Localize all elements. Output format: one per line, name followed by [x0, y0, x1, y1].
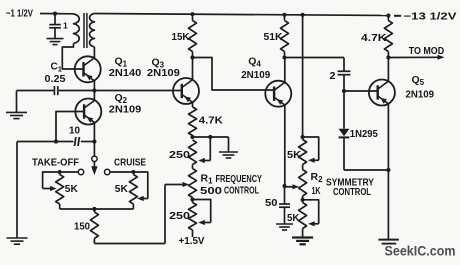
node R2 chain top [301, 135, 305, 139]
wire Q4 emitter down [284, 105, 286, 186]
wiper 5K lower R2 [303, 200, 319, 224]
wire TO MOD with arrow [388, 56, 438, 58]
svg-text:15K: 15K [172, 31, 190, 43]
ground stem left input [16, 91, 18, 113]
transistor Q5 [369, 80, 395, 106]
node TO MOD junction [386, 55, 390, 59]
net -13.5V tick [394, 15, 401, 17]
transformer T1 primary winding [74, 14, 80, 43]
svg-text:2N109: 2N109 [241, 69, 270, 81]
wire R1 wiper to bottom [94, 243, 165, 245]
wire left rail down [16, 142, 18, 238]
svg-text:CONTROL: CONTROL [333, 187, 371, 198]
node rail 4.7K right [386, 13, 390, 17]
svg-text:4.7K: 4.7K [199, 114, 223, 126]
wire Q2 base left and down [56, 112, 84, 142]
ground bottom right [378, 239, 398, 241]
resistor 15K [192, 14, 194, 20]
svg-text:2N109: 2N109 [109, 103, 142, 115]
wire Q1 emitter down [93, 81, 95, 91]
potentiometer R1 500 [192, 165, 194, 169]
potentiometer take-off 5K [59, 172, 61, 175]
svg-text:2N109: 2N109 [406, 88, 435, 100]
wire input left segment [17, 90, 54, 92]
node Q5 emitter junction [386, 168, 390, 172]
svg-text:5K: 5K [115, 183, 128, 195]
svg-text:1N295: 1N295 [350, 128, 378, 140]
node R2 wiper junction [282, 184, 286, 188]
svg-text:+1.5V: +1.5V [179, 235, 205, 247]
svg-text:51K: 51K [264, 31, 283, 43]
svg-text:TAKE-OFF: TAKE-OFF [32, 157, 79, 168]
node R2 bottom junction [301, 198, 305, 202]
node cruise pot top [131, 170, 135, 174]
wire Q5 emitter [387, 104, 389, 170]
svg-text:500: 500 [200, 186, 223, 197]
svg-text:250: 250 [169, 149, 190, 161]
potentiometer 250 lower [192, 200, 194, 203]
wire feedback right segment [81, 141, 95, 143]
wiper take-off 5K [43, 172, 60, 189]
wire Q3 collector [192, 58, 194, 80]
transistor Q3 [173, 78, 199, 104]
capacitor 1 (bypass) with value label [54, 14, 56, 25]
wire Q1 collector to secondary bottom [93, 47, 95, 58]
ground bottom left [7, 237, 28, 239]
node Q4 collector junction [282, 55, 286, 59]
resistor 51K [284, 15, 286, 21]
ground under 50 cap [276, 223, 293, 225]
diode 1N295 [343, 91, 345, 129]
transistor Q2 [75, 99, 101, 125]
wire junction to Q3 base [94, 90, 181, 92]
svg-text:0.25: 0.25 [45, 73, 66, 85]
switch take-off terminal [78, 169, 83, 174]
svg-text:5K: 5K [287, 212, 300, 224]
wire take-off terminal to pot [60, 171, 79, 173]
wire cap2 to Q5 base [344, 90, 378, 92]
wire diode to Q5 emitter [344, 169, 388, 171]
node Q5 base junction [342, 89, 346, 93]
wire C1 to emitter junction [59, 90, 95, 92]
ground left input [6, 111, 27, 113]
transformer T1 core [83, 13, 85, 48]
capacitor 50 [284, 186, 286, 204]
svg-text:2N140: 2N140 [109, 67, 142, 79]
node rail R2 chain [301, 13, 305, 17]
wire pots common bottom [60, 208, 134, 210]
node take-off pot top [58, 170, 62, 174]
svg-text:FREQUENCY: FREQUENCY [216, 174, 263, 185]
wire 51K bottom to cap 2 [285, 57, 345, 59]
potentiometer R2 1K [302, 165, 304, 170]
svg-text:5K: 5K [287, 149, 301, 161]
potentiometer 250 upper [189, 140, 197, 165]
potentiometer cruise 5K [132, 172, 134, 175]
capacitor 2 [343, 58, 345, 72]
svg-text:4.7K: 4.7K [361, 32, 387, 44]
svg-text:2: 2 [330, 70, 336, 82]
wire primary bottom to Q1 base [62, 43, 83, 69]
node 250a wiper tap [208, 135, 212, 139]
ground under R2 chain [292, 236, 313, 238]
svg-text:−1 1/2V: −1 1/2V [6, 9, 33, 20]
wire supply to transformer primary top [40, 13, 74, 15]
wire Q5 emitter to ground [387, 170, 389, 239]
svg-text:CRUISE: CRUISE [114, 157, 146, 168]
wire cap10 junction to switch [93, 142, 95, 157]
potentiometer 5K lower R2 [302, 200, 304, 203]
transistor Q1 [75, 56, 101, 82]
svg-text:50: 50 [265, 197, 278, 209]
wire to bias ground [193, 136, 229, 138]
wiper cruise 5K [133, 172, 147, 199]
wiper 5K upper R2 [303, 137, 319, 160]
node Q2 emitter tap [92, 139, 96, 143]
wiper R1 500 arrow [164, 185, 166, 244]
svg-text:TO MOD: TO MOD [409, 46, 445, 57]
transistor Q4 [265, 81, 291, 107]
ground under capacitor 1 [47, 38, 64, 40]
node 150 top [92, 207, 96, 211]
wire Q3 collector to Q4 base [193, 58, 275, 91]
resistor 4.7K Q3 emitter [192, 102, 194, 107]
node supply junction [53, 12, 57, 16]
node Q2 base tap [54, 139, 58, 143]
svg-text:1K: 1K [312, 185, 321, 197]
switch wiper arrow [93, 162, 95, 167]
transformer T1 secondary winding [90, 14, 95, 47]
wire Q2 emitter down [93, 123, 95, 142]
node R1 bottom junction [190, 197, 194, 201]
svg-text:250: 250 [169, 210, 190, 222]
svg-text:10: 10 [69, 124, 80, 136]
ground stem bias [228, 137, 230, 152]
resistor 150 [93, 209, 95, 212]
wire Q2 collector up [93, 91, 95, 101]
svg-text:−13 1/2V: −13 1/2V [404, 11, 457, 22]
capacitor C1 series plates [53, 86, 55, 95]
wire Q4 collector [284, 58, 286, 83]
node 4.7K bottom [190, 135, 194, 139]
wiper R2 arrow [285, 186, 294, 188]
ground bias network [219, 151, 238, 153]
svg-text:5K: 5K [65, 183, 78, 195]
wire rail to R2 chain [302, 15, 304, 137]
wiper 250 upper [209, 137, 211, 161]
resistor 4.7K output [387, 16, 389, 21]
node rail 15K [190, 12, 194, 16]
svg-text:CONTROL: CONTROL [224, 186, 259, 197]
wire cruise terminal to pot [110, 171, 133, 173]
node rail 51K [282, 13, 286, 17]
potentiometer 5K upper R2 [302, 137, 304, 140]
svg-text:150: 150 [74, 221, 90, 233]
svg-text:2N109: 2N109 [147, 67, 180, 79]
svg-text:1: 1 [63, 20, 68, 30]
wire feedback left segment [17, 141, 73, 143]
switch common terminal [92, 156, 97, 161]
wiper 250 lower [193, 200, 211, 223]
wire Q5 collector [387, 58, 389, 82]
svg-text:SeekIC.com: SeekIC.com [385, 243, 456, 259]
switch cruise terminal [105, 169, 110, 174]
node Q3 collector junction [190, 55, 194, 59]
capacitor 10 plates [75, 137, 76, 146]
node 150 junction [92, 207, 96, 211]
node Q1/Q2 emitter junction [92, 88, 96, 92]
wire top supply rail [94, 14, 388, 16]
